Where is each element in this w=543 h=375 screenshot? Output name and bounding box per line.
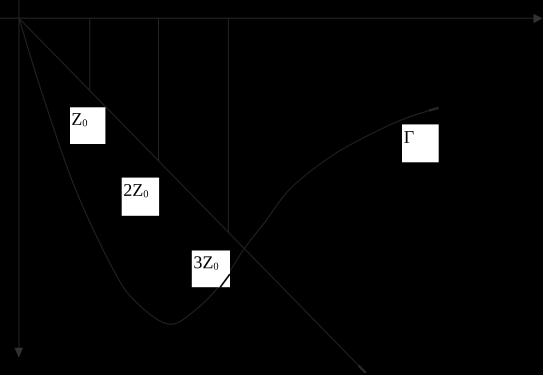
curved ray segment visible over 3Z0 box corner — [220, 274, 230, 287]
depth axis arrowhead — [15, 348, 24, 358]
45-degree ray small end arrowhead — [359, 366, 366, 373]
depth axis (vertical arrow, faint) — [18, 0, 20, 349]
label box Gamma — [402, 124, 439, 162]
layer boundary 2 (vertical at x=158.5) — [158, 18, 160, 161]
straight 45-degree ray from origin — [19, 18, 365, 371]
curved ray small end arrowhead — [429, 108, 439, 111]
z axis arrowhead — [534, 14, 543, 23]
label Z0 — [72, 113, 87, 126]
label box 3Z0 — [192, 251, 230, 288]
layer boundary 3 (vertical at x=228.4) — [227, 18, 229, 232]
layer boundary 1 (vertical at x=89.5) — [89, 18, 91, 91]
label Gamma — [404, 131, 413, 143]
label box 2Z0 — [122, 178, 159, 216]
z axis (horizontal arrow, faint) — [0, 17, 534, 19]
curved refracted ray (down then up toward Gamma) — [19, 18, 438, 324]
label box Z0 — [70, 107, 105, 144]
label 2Z0 — [124, 184, 148, 197]
label 3Z0 — [194, 256, 218, 269]
